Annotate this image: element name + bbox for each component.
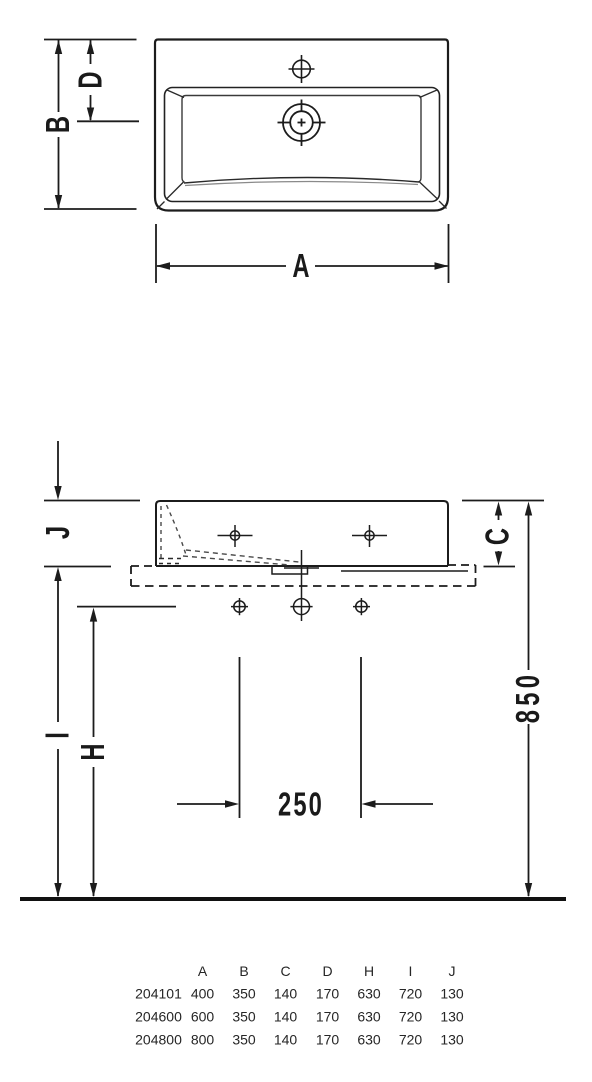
dimension B line lower segment xyxy=(58,137,60,208)
corner diagonal bottom-right (floor to rim) xyxy=(419,182,438,200)
svg-text:350: 350 xyxy=(232,1032,256,1048)
C bottom shaft xyxy=(498,551,500,558)
wall hole crosshair right xyxy=(353,598,370,615)
svg-text:170: 170 xyxy=(316,1009,340,1025)
svg-text:204101: 204101 xyxy=(135,986,182,1002)
arrow 250 left (pointing right) xyxy=(225,800,239,807)
svg-text:400: 400 xyxy=(191,986,215,1002)
arrow B top xyxy=(55,40,62,54)
svg-text:720: 720 xyxy=(399,1009,423,1025)
250 right arrow shaft xyxy=(373,803,433,805)
corner diagonal bottom-right (rim to outer) xyxy=(439,201,447,209)
corner diagonal bottom-left (floor to rim) xyxy=(166,182,184,200)
extension line top (for B and D) xyxy=(44,39,137,41)
arrow 850 bottom xyxy=(525,883,532,897)
drain centerline (side view) xyxy=(301,550,303,621)
dimension A line left segment xyxy=(157,265,286,267)
svg-text:A: A xyxy=(198,963,208,979)
svg-text:130: 130 xyxy=(440,986,464,1002)
svg-text:140: 140 xyxy=(274,986,298,1002)
mounting hole crosshair right (side view) xyxy=(352,525,387,547)
C top shaft xyxy=(498,513,500,520)
hidden basin wall dashed diagonal xyxy=(167,505,187,555)
arrow D bottom xyxy=(87,108,94,122)
mounting bracket dashed outline bottom xyxy=(131,585,476,587)
hidden basin floor dashed slope lower xyxy=(183,556,290,565)
table row 204600 xyxy=(135,1009,464,1025)
dimension I line lower segment xyxy=(57,749,59,896)
corner diagonal top-left (rim to floor) xyxy=(167,90,184,98)
corner diagonal bottom-left (rim to outer) xyxy=(157,202,165,210)
arrow D top xyxy=(87,40,94,54)
dimension B line upper segment xyxy=(58,40,60,112)
drain hole crosshair (top view) xyxy=(278,100,326,147)
svg-text:630: 630 xyxy=(357,1032,381,1048)
mounting hole crosshair left (side view) xyxy=(218,525,253,547)
svg-text:B: B xyxy=(239,963,248,979)
drain crossbar (side view) xyxy=(284,567,319,569)
svg-text:350: 350 xyxy=(232,986,256,1002)
hidden dashed ledge short xyxy=(159,558,181,560)
dimension D line lower segment xyxy=(90,95,92,120)
arrow 250 right (pointing left) xyxy=(362,800,376,807)
svg-text:140: 140 xyxy=(274,1032,298,1048)
extension line A left xyxy=(155,224,157,283)
mounting bracket dashed outline top-right xyxy=(448,564,476,566)
lower bottom line right half xyxy=(341,570,468,572)
svg-text:140: 140 xyxy=(274,1009,298,1025)
svg-text:I: I xyxy=(409,963,413,979)
svg-text:H: H xyxy=(75,743,112,760)
basin side profile outline xyxy=(156,501,448,566)
svg-text:J: J xyxy=(449,963,456,979)
extension line 250 right xyxy=(360,657,362,818)
arrow H top (pointing up at hole level) xyxy=(90,608,97,622)
arrow C top (pointing up) xyxy=(495,502,502,516)
mounting bracket dashed outline right xyxy=(475,565,477,586)
arrow B bottom xyxy=(55,195,62,209)
hidden basin wall dashed vertical xyxy=(160,506,162,559)
arrow 850 top (pointing up) xyxy=(525,502,532,516)
svg-text:630: 630 xyxy=(357,986,381,1002)
svg-text:J: J xyxy=(40,526,77,539)
arrow H bottom xyxy=(90,883,97,897)
svg-text:600: 600 xyxy=(191,1009,215,1025)
dimension H line lower segment xyxy=(93,767,95,896)
mounting bracket dashed outline left xyxy=(130,566,132,586)
svg-text:170: 170 xyxy=(316,986,340,1002)
basin floor lower gray curve (top view) xyxy=(185,181,418,185)
J upper pointer line xyxy=(57,441,59,487)
extension line top-left of side view (for J) xyxy=(44,500,140,502)
wall hole crosshair left xyxy=(231,598,248,615)
svg-text:170: 170 xyxy=(316,1032,340,1048)
svg-text:350: 350 xyxy=(232,1009,256,1025)
faucet hole crosshair (top view) xyxy=(289,55,315,83)
svg-text:720: 720 xyxy=(399,986,423,1002)
svg-text:630: 630 xyxy=(357,1009,381,1025)
dimension 850 line lower segment xyxy=(528,724,530,896)
arrow I bottom xyxy=(54,883,61,897)
extension line for D at drain center level xyxy=(77,120,139,122)
svg-text:D: D xyxy=(322,963,332,979)
svg-text:H: H xyxy=(364,963,374,979)
svg-text:130: 130 xyxy=(440,1009,464,1025)
table row 204101 xyxy=(135,986,464,1002)
svg-text:204600: 204600 xyxy=(135,1009,182,1025)
table row 204800 xyxy=(135,1032,464,1048)
basin side bottom edge xyxy=(156,565,448,567)
extension line top-right of side view (for C and 850) xyxy=(462,500,544,502)
svg-text:C: C xyxy=(480,528,517,545)
arrow I top (pointing up at basin bottom) xyxy=(54,567,61,581)
svg-text:720: 720 xyxy=(399,1032,423,1048)
svg-text:250: 250 xyxy=(278,787,324,824)
250 left arrow shaft xyxy=(177,803,228,805)
extension line for C bottom xyxy=(484,566,516,568)
basin inner rim opening (top view) xyxy=(165,88,440,202)
corner diagonal top-right (rim to floor) xyxy=(420,90,438,98)
arrow A left xyxy=(156,262,170,269)
extension line for H (hole level) xyxy=(77,606,176,608)
drain boss step below bottom xyxy=(272,566,308,574)
svg-text:D: D xyxy=(73,71,110,88)
dimension A line right segment xyxy=(315,265,448,267)
arrow J top (pointing down) xyxy=(54,486,61,500)
svg-text:I: I xyxy=(40,732,77,739)
wall hole crosshair middle (drain) xyxy=(290,599,312,615)
table header row A B C D H I J xyxy=(198,963,456,979)
basin floor bottom slope curve (top view) xyxy=(184,177,419,183)
basin outer rim rectangle (top view) xyxy=(155,40,448,211)
svg-text:130: 130 xyxy=(440,1032,464,1048)
ground line xyxy=(20,897,566,901)
svg-text:A: A xyxy=(292,248,309,285)
hidden basin floor dashed slope upper xyxy=(186,550,299,562)
svg-text:850: 850 xyxy=(510,671,547,724)
extension line mid-left of side view (for J/I at basin bottom) xyxy=(44,566,111,568)
extension line 250 left xyxy=(239,657,241,818)
svg-text:204800: 204800 xyxy=(135,1032,182,1048)
svg-text:C: C xyxy=(280,963,290,979)
svg-text:B: B xyxy=(40,116,77,133)
arrow A right xyxy=(435,262,449,269)
dimension H line upper segment xyxy=(93,618,95,737)
basin floor contour (top view) xyxy=(182,96,421,183)
extension line bottom (for B) xyxy=(44,208,137,210)
mounting bracket dashed outline top-left xyxy=(131,565,156,567)
arrow C bottom (pointing down) xyxy=(495,552,502,566)
hidden dashed bottom-left bits xyxy=(159,563,180,565)
svg-text:800: 800 xyxy=(191,1032,215,1048)
dimension D line upper segment xyxy=(90,40,92,64)
extension line A right xyxy=(448,224,450,283)
dimension 850 line upper segment xyxy=(528,513,530,670)
dimension I line upper segment xyxy=(57,578,59,722)
